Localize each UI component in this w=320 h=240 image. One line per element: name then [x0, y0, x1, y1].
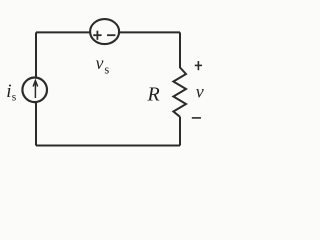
svg-text:s: s	[12, 91, 17, 103]
svg-text:i: i	[6, 81, 11, 102]
svg-text:v: v	[196, 81, 204, 101]
svg-text:R: R	[147, 84, 160, 106]
svg-text:v: v	[96, 53, 104, 73]
svg-text:s: s	[104, 63, 109, 77]
